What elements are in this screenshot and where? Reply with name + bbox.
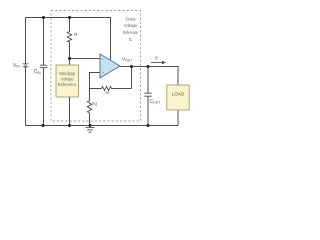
- svg-text:IC: IC: [129, 37, 133, 42]
- svg-text:Series: Series: [125, 16, 136, 21]
- svg-text:R: R: [74, 32, 77, 37]
- svg-text:R1: R1: [106, 90, 111, 95]
- svg-text:R2: R2: [92, 101, 98, 106]
- svg-text:VIN: VIN: [13, 63, 20, 69]
- svg-text:VOUT: VOUT: [122, 56, 132, 62]
- svg-text:Voltage: Voltage: [61, 76, 74, 81]
- svg-text:COUT: COUT: [150, 99, 161, 105]
- svg-text:Voltage: Voltage: [124, 23, 137, 28]
- svg-text:IL: IL: [155, 55, 158, 61]
- svg-text:LOAD: LOAD: [172, 91, 185, 96]
- svg-text:Bandgap: Bandgap: [59, 71, 75, 76]
- svg-text:CIN: CIN: [34, 69, 42, 75]
- svg-text:Reference: Reference: [58, 82, 77, 87]
- svg-text:Reference: Reference: [123, 30, 138, 35]
